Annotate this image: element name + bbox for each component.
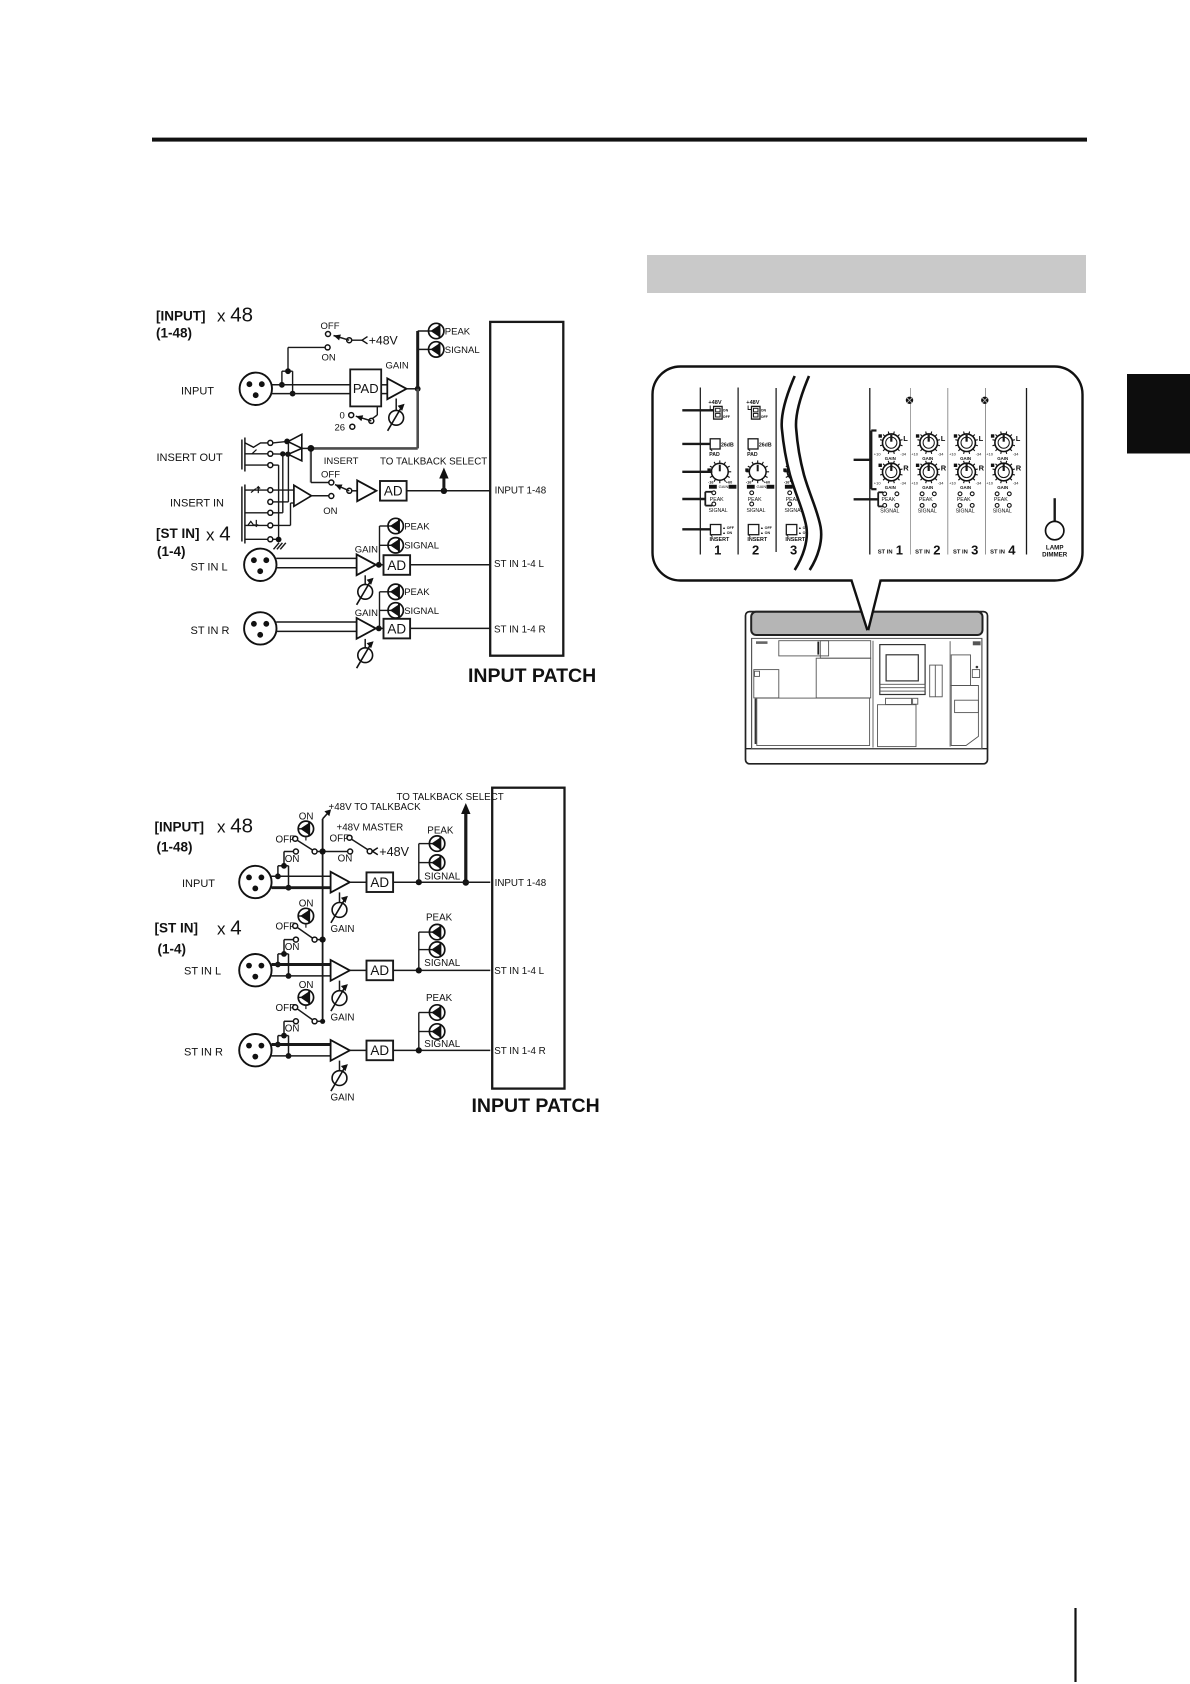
wires to amp [272,963,331,966]
wire to patch [410,564,490,566]
svg-text:AD: AD [370,963,389,978]
ST IN 2 R knob [920,463,938,481]
PAD box [350,369,381,406]
svg-text:ST IN: ST IN [915,550,930,556]
svg-text:4: 4 [1008,543,1016,558]
channel 2: GAIN knob [749,463,766,480]
ST IN 2 L knob [920,434,938,452]
svg-text:+10: +10 [949,451,957,456]
console body [746,612,988,764]
svg-text:ON: ON [285,854,300,865]
console detail blocks [779,641,829,656]
svg-text:2: 2 [752,543,759,558]
svg-text:x 4: x 4 [206,523,231,546]
ST IN 4 leds [995,492,999,496]
svg-text:+48V: +48V [746,400,759,406]
svg-text:INSERT: INSERT [324,456,359,467]
channel 3: GAIN knob [787,463,804,480]
svg-text:▲ OFF: ▲ OFF [760,526,773,530]
svg-text:OFF: OFF [761,415,769,419]
svg-text:26dB: 26dB [759,442,772,448]
LED branch [379,526,381,565]
svg-text:AD: AD [370,1043,389,1058]
wire to peak/signal LEDs (thick) [416,331,419,389]
gain pot [339,981,341,991]
ST IN 3 L knob [958,434,976,452]
gain amp [331,960,350,981]
svg-text:OFF: OFF [723,415,731,419]
svg-text:+48V MASTER: +48V MASTER [337,823,404,834]
svg-text:ST IN: ST IN [953,550,968,556]
gain pot R [364,639,366,648]
channel 3: INSERT button [786,525,797,535]
svg-text:L: L [1016,434,1021,443]
svg-text:PEAK: PEAK [882,497,896,503]
svg-text:PAD: PAD [709,452,720,458]
wire phantom to bracket [288,346,325,348]
ST IN 3 R knob [958,463,976,481]
svg-text:INPUT: INPUT [182,878,215,890]
svg-text:GAIN: GAIN [331,1012,355,1023]
channel separators [699,388,701,555]
buffer amp [357,480,376,501]
channel 1: PAD button [710,439,720,449]
svg-text:GAIN: GAIN [997,456,1008,461]
svg-text:ON: ON [285,942,300,953]
svg-text:PEAK: PEAK [404,587,430,598]
section header gray bar [647,255,1086,293]
svg-text:ST IN 1-4 L: ST IN 1-4 L [494,966,544,977]
ST IN 3 leds [958,492,962,496]
ST IN 1 L knob [883,434,901,452]
svg-text:[ST IN]: [ST IN] [156,526,200,541]
svg-text:L: L [979,434,984,443]
node amp output [407,388,418,390]
LAMP DIMMER control [1053,498,1055,522]
svg-text:R: R [1016,463,1022,472]
phantom bracket [278,865,289,867]
PAD 0/26 switch [376,406,378,415]
svg-text:ST IN 1-4 R: ST IN 1-4 R [494,1046,546,1057]
svg-text:x 48: x 48 [217,815,253,838]
svg-text:R: R [979,463,985,472]
jack to return amp wires [273,489,294,491]
svg-text:3: 3 [971,543,978,558]
svg-text:PEAK: PEAK [427,825,454,836]
svg-text:PAD: PAD [353,381,379,396]
svg-text:ST IN: ST IN [878,550,893,556]
svg-text:ON: ON [285,1024,300,1035]
svg-text:L: L [941,434,946,443]
INPUT PATCH box [490,322,563,656]
svg-text:INSERT OUT: INSERT OUT [157,452,223,464]
peak/signal leader [854,498,879,500]
svg-text:ON: ON [323,506,337,517]
svg-text:GAIN: GAIN [757,484,767,489]
svg-text:PEAK: PEAK [748,497,762,503]
phantom bracket [278,953,289,955]
svg-text:x 4: x 4 [217,917,242,940]
meter bridge (gray) [751,612,982,635]
svg-text:SIGNAL: SIGNAL [880,508,899,514]
svg-text:ST IN L: ST IN L [184,966,221,978]
svg-text:OFF: OFF [321,321,340,332]
svg-text:26dB: 26dB [721,442,734,448]
svg-text:R: R [903,463,909,472]
svg-text:PEAK: PEAK [445,326,471,337]
svg-text:L: L [903,434,908,443]
svg-text:AD: AD [387,558,406,573]
svg-text:GAIN: GAIN [885,485,896,490]
channel 2: PAD button [748,439,758,449]
svg-text:(1-48): (1-48) [157,839,193,854]
insert return amp [294,485,312,506]
svg-text:1: 1 [714,543,721,558]
ST IN 1 leds [883,492,887,496]
svg-text:SIGNAL: SIGNAL [918,508,937,514]
gain pot L [364,575,366,584]
svg-text:1: 1 [896,543,903,558]
wire amp output down to insert send [416,389,419,449]
svg-text:[INPUT]: [INPUT] [155,820,205,835]
svg-text:-16: -16 [708,481,714,485]
insert send driver amps [273,441,287,443]
svg-text:+48V: +48V [379,845,409,859]
wires to amp [272,875,331,877]
channel 2: peak/signal [750,491,754,495]
page-break curves [782,376,866,570]
svg-text:GAIN: GAIN [355,608,378,619]
svg-text:PEAK: PEAK [426,993,453,1004]
svg-text:▲ ON: ▲ ON [760,531,770,535]
svg-text:ON: ON [338,854,353,865]
svg-text:SIGNAL: SIGNAL [404,606,439,617]
svg-text:-34: -34 [900,451,907,456]
svg-text:PEAK: PEAK [957,497,971,503]
svg-text:GAIN: GAIN [960,456,971,461]
top rule [152,138,1087,142]
svg-text:ON: ON [723,409,729,413]
svg-text:INPUT PATCH: INPUT PATCH [468,665,596,687]
svg-text:GAIN: GAIN [331,1092,355,1103]
svg-text:PEAK: PEAK [710,497,724,503]
LED branch [379,592,381,629]
AD converter R [384,619,411,639]
svg-text:PEAK: PEAK [426,912,453,923]
svg-text:INPUT 1-48: INPUT 1-48 [495,878,547,889]
ST IN 1 R knob [883,463,901,481]
svg-text:-16: -16 [784,481,790,485]
svg-text:SIGNAL: SIGNAL [747,508,766,514]
wire XLR to PAD [272,384,351,386]
chapter tab (black) right edge [1127,374,1190,454]
channel 1: GAIN knob [711,463,728,480]
svg-text:DIMMER: DIMMER [1042,552,1068,559]
svg-text:AD: AD [387,621,406,636]
svg-text:-34: -34 [1013,451,1020,456]
svg-text:[INPUT]: [INPUT] [156,309,206,324]
LED PEAK [388,518,403,533]
svg-text:-34: -34 [976,481,983,486]
big talkback arrow [464,812,467,882]
AD converter (input) [380,481,407,501]
svg-text:PEAK: PEAK [404,521,430,532]
svg-text:+48V: +48V [369,334,399,348]
svg-text:ST IN 1-4 R: ST IN 1-4 R [494,624,546,635]
channel 3: peak/signal [788,491,792,495]
call-out pointer [851,578,881,630]
svg-text:GAIN: GAIN [719,484,729,489]
footer rule bottom right [1074,1608,1076,1682]
svg-text:(1-4): (1-4) [158,942,187,957]
AD converter [367,1041,394,1061]
svg-text:▲ ON: ▲ ON [722,531,732,535]
svg-text:(1-48): (1-48) [156,326,192,341]
svg-text:SIGNAL: SIGNAL [424,958,460,969]
svg-text:OFF: OFF [330,834,350,845]
INPUT PATCH box (lower) [492,788,564,1089]
LED PEAK [429,323,444,338]
svg-text:SIGNAL: SIGNAL [709,508,728,514]
arrow to +48V TO TALKBACK [323,813,329,819]
svg-text:ST IN R: ST IN R [184,1046,223,1058]
LED SIGNAL [429,342,444,357]
svg-text:-34: -34 [900,481,907,486]
svg-text:+10: +10 [986,451,994,456]
svg-text:GAIN: GAIN [922,485,933,490]
LED branch ST IN L [418,932,420,970]
svg-text:+10: +10 [911,481,919,486]
svg-text:SIGNAL: SIGNAL [404,541,439,552]
+48V bus [322,819,324,1021]
gain amp [331,872,350,893]
svg-text:LAMP: LAMP [1046,545,1064,552]
svg-text:+10: +10 [874,451,882,456]
svg-text:x 48: x 48 [217,304,253,327]
svg-text:SIGNAL: SIGNAL [424,1039,460,1050]
svg-text:▲ OFF: ▲ OFF [722,526,735,530]
AD converter [367,961,394,981]
screws [906,397,913,404]
gain pot [339,1061,341,1071]
svg-text:GAIN: GAIN [331,924,355,935]
wires to amp [272,1043,331,1046]
LED PEAK [388,584,403,599]
svg-text:-34: -34 [976,451,983,456]
svg-text:2: 2 [933,543,940,558]
ST IN group frame lines [869,388,871,555]
svg-text:ST IN: ST IN [990,550,1005,556]
svg-text:+10: +10 [874,481,882,486]
svg-text:PEAK: PEAK [919,497,933,503]
svg-text:SIGNAL: SIGNAL [956,508,975,514]
channel 2: INSERT button [748,525,759,535]
svg-text:ON: ON [761,409,767,413]
svg-text:PAD: PAD [747,452,758,458]
console screen [880,645,925,695]
ST IN 4 R knob [995,463,1013,481]
svg-text:-34: -34 [938,451,945,456]
svg-text:GAIN: GAIN [922,456,933,461]
svg-text:SIGNAL: SIGNAL [445,345,480,356]
svg-text:+48V: +48V [708,400,721,406]
ST IN bracket leader [854,459,872,461]
leader lines [682,409,713,411]
ST IN 4 L knob [995,434,1013,452]
svg-text:-34: -34 [938,481,945,486]
wire [276,621,356,623]
svg-text:INPUT: INPUT [181,386,214,398]
svg-text:GAIN: GAIN [355,545,378,556]
svg-text:INPUT PATCH: INPUT PATCH [472,1095,600,1117]
svg-text:0: 0 [340,411,345,422]
svg-text:GAIN: GAIN [997,485,1008,490]
svg-text:+10: +10 [949,481,957,486]
gain pot [339,892,341,902]
wire [276,557,356,559]
LED SIGNAL [388,603,403,618]
svg-text:R: R [941,463,947,472]
AD converter [367,872,394,892]
yamaha logo marks [756,641,768,644]
channel 3: PAD button [786,439,796,449]
svg-text:[ST IN]: [ST IN] [155,921,199,936]
svg-text:3: 3 [790,543,797,558]
svg-text:INPUT 1-48: INPUT 1-48 [495,486,547,497]
svg-text:ST IN R: ST IN R [191,625,230,637]
channel 1: INSERT button [710,525,721,535]
gain pot [395,399,397,411]
phantom bracket [278,1035,289,1037]
svg-text:GAIN: GAIN [885,456,896,461]
svg-text:-34: -34 [1013,481,1020,486]
LED branch INPUT [418,844,420,883]
svg-text:INSERT IN: INSERT IN [170,497,224,509]
svg-text:SIGNAL: SIGNAL [424,872,460,883]
svg-text:ST IN 1-4 L: ST IN 1-4 L [494,559,544,570]
svg-text:AD: AD [384,484,403,499]
svg-text:(1-4): (1-4) [157,544,186,559]
bubble outline [653,367,1083,581]
svg-text:ON: ON [322,353,336,364]
channel 1: peak/signal [712,491,716,495]
svg-text:TO TALKBACK SELECT: TO TALKBACK SELECT [380,456,487,467]
LED SIGNAL [388,538,403,553]
svg-text:+10: +10 [911,451,919,456]
svg-text:ST IN L: ST IN L [191,561,228,573]
svg-text:26: 26 [335,422,346,433]
wire to patch [410,627,490,629]
ST IN 2 leds [920,492,924,496]
insert normalling wires [273,453,288,455]
svg-text:AD: AD [370,875,389,890]
svg-text:OFF: OFF [321,470,340,481]
ground [273,538,279,540]
svg-text:-16: -16 [746,481,752,485]
LED branch ST IN R [418,1013,420,1051]
AD converter L [384,555,411,575]
svg-text:+10: +10 [986,481,994,486]
svg-text:+48V TO TALKBACK: +48V TO TALKBACK [329,802,422,813]
gain amp [331,1040,350,1061]
svg-text:PEAK: PEAK [994,497,1008,503]
wire AD to patch [407,490,491,492]
console top face [752,638,982,748]
svg-text:GAIN: GAIN [960,485,971,490]
svg-text:GAIN: GAIN [386,360,409,371]
svg-text:SIGNAL: SIGNAL [993,508,1012,514]
